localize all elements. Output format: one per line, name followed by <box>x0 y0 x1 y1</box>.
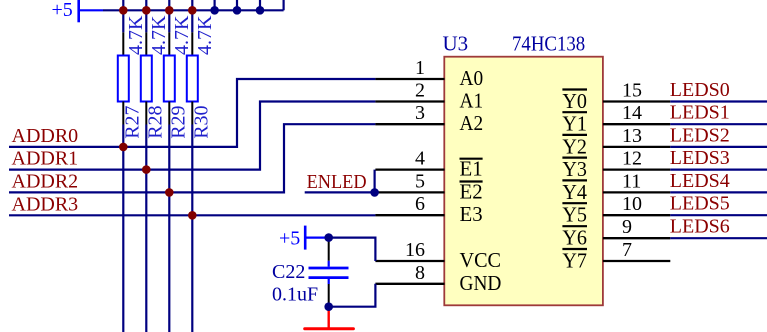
svg-text:LEDS3: LEDS3 <box>670 147 730 169</box>
svg-text:E3: E3 <box>460 202 483 226</box>
wire C22 to GND pin 8 <box>329 284 376 307</box>
net label ADDR1 <box>12 148 79 170</box>
net label LEDS1 <box>670 102 730 124</box>
pin 3 number <box>415 102 425 124</box>
pin 13 (Y2) <box>603 146 670 148</box>
junction dot R29/+5 rail <box>165 6 174 15</box>
svg-text:Y3: Y3 <box>562 157 587 181</box>
svg-text:5: 5 <box>415 170 425 192</box>
wire R27 top <box>122 10 124 32</box>
pin name E3 <box>460 202 483 226</box>
pin name Y5 (active low) <box>562 203 587 227</box>
capacitor C22 <box>309 238 349 307</box>
pin 14 (Y1) <box>603 123 670 125</box>
R30 designator label <box>191 105 213 138</box>
pin 15 (Y0) <box>603 100 670 102</box>
wire ENLED <box>305 191 376 193</box>
resistor R27 <box>118 32 129 124</box>
pin 8 (GND) <box>375 283 444 285</box>
resistor R30 <box>187 32 198 124</box>
wire +5 rail <box>103 9 284 11</box>
wire LEDS3 <box>670 169 767 171</box>
+5 label (C22) <box>279 228 300 250</box>
wire rail end riser <box>283 0 285 10</box>
pin 16 number <box>405 239 425 261</box>
svg-text:VCC: VCC <box>460 248 502 272</box>
pin 9 (Y6) <box>603 237 670 239</box>
C22 value 0.1uF <box>272 284 318 306</box>
IC U3 74HC138 body <box>444 57 603 306</box>
wire R28 stub above rail <box>145 0 147 10</box>
wire LEDS5 <box>670 214 767 216</box>
R27 value label 4.7K <box>125 15 147 55</box>
power +5 symbol (C22) <box>305 226 329 250</box>
net label LEDS2 <box>670 124 730 146</box>
pin name A2 <box>460 111 484 135</box>
pin name Y2 (active low) <box>562 134 587 158</box>
pin 6 (E3) <box>375 214 444 216</box>
junction dot R30/ADDR3 <box>188 211 197 220</box>
U3 designator <box>443 32 469 56</box>
svg-text:C22: C22 <box>272 261 305 283</box>
wire R29 top <box>168 10 170 32</box>
wire R27 column down <box>122 125 124 332</box>
wire ADDR0 <box>9 79 375 147</box>
svg-text:LEDS1: LEDS1 <box>670 102 730 124</box>
net label LEDS6 <box>670 216 730 238</box>
svg-text:+5: +5 <box>279 228 300 250</box>
junction dot rail riser A <box>210 6 219 15</box>
wire R30 top <box>191 10 193 32</box>
net label LEDS5 <box>670 193 730 215</box>
svg-text:4.7K: 4.7K <box>148 15 170 55</box>
pin 10 (Y5) <box>603 214 670 216</box>
svg-text:6: 6 <box>415 193 425 215</box>
wire LEDS1 <box>670 123 767 125</box>
svg-text:4.7K: 4.7K <box>171 15 193 55</box>
svg-text:U3: U3 <box>443 32 469 56</box>
svg-text:ADDR1: ADDR1 <box>12 148 79 170</box>
pin name E1 <box>460 157 483 181</box>
wire R27 stub above rail <box>122 0 124 10</box>
svg-text:LEDS0: LEDS0 <box>670 79 730 101</box>
net label ADDR3 <box>12 193 79 215</box>
svg-text:11: 11 <box>622 170 641 192</box>
svg-text:R28: R28 <box>145 105 167 138</box>
pin 10 number <box>622 193 642 215</box>
svg-text:Y5: Y5 <box>562 203 587 227</box>
svg-text:LEDS6: LEDS6 <box>670 216 730 238</box>
net label LEDS3 <box>670 147 730 169</box>
wire R29 stub above rail <box>168 0 170 10</box>
svg-text:+5: +5 <box>52 0 73 21</box>
svg-text:R30: R30 <box>191 105 213 138</box>
+5 label (top left) <box>52 0 73 21</box>
svg-text:A2: A2 <box>460 111 484 135</box>
power +5 symbol (top left) <box>79 0 103 22</box>
junction dot C22 bottom <box>324 302 333 311</box>
svg-text:ENLED: ENLED <box>307 171 367 193</box>
pin 13 number <box>622 125 642 147</box>
junction dot rail riser B <box>233 6 242 15</box>
net label ADDR0 <box>12 125 79 147</box>
wire LEDS6 <box>670 237 767 239</box>
junction dot R30/+5 rail <box>188 6 197 15</box>
svg-text:GND: GND <box>460 271 502 295</box>
svg-text:13: 13 <box>622 125 642 147</box>
pin 7 number <box>622 239 632 261</box>
pin 14 number <box>622 102 642 124</box>
pin name GND <box>460 271 502 295</box>
svg-text:8: 8 <box>415 262 425 284</box>
pin 4 number <box>415 148 425 170</box>
pin 15 number <box>622 80 642 102</box>
net label ADDR2 <box>12 170 79 192</box>
R30 value label 4.7K <box>194 15 216 55</box>
pin 3 (A2) <box>375 123 444 125</box>
pin name E2 <box>460 179 483 203</box>
svg-text:ADDR3: ADDR3 <box>12 193 79 215</box>
svg-text:LEDS5: LEDS5 <box>670 193 730 215</box>
net label LEDS0 <box>670 79 730 101</box>
svg-text:Y2: Y2 <box>562 134 587 158</box>
svg-text:Y1: Y1 <box>562 112 587 136</box>
svg-text:7: 7 <box>622 239 632 261</box>
pin 4 (E1) <box>375 168 444 170</box>
pin name Y6 (active low) <box>562 226 587 250</box>
pin 5 number <box>415 170 425 192</box>
svg-text:4.7K: 4.7K <box>125 15 147 55</box>
pin 9 number <box>622 216 632 238</box>
pin 11 number <box>622 170 641 192</box>
pin name VCC <box>460 248 502 272</box>
ground <box>305 307 354 329</box>
pin name Y4 (active low) <box>562 180 587 204</box>
svg-text:4: 4 <box>415 148 425 170</box>
R27 designator label <box>122 105 144 138</box>
junction dot C22 top <box>324 233 333 242</box>
svg-text:A1: A1 <box>460 89 484 113</box>
resistor R28 <box>141 32 152 124</box>
svg-text:Y4: Y4 <box>562 180 587 204</box>
svg-text:12: 12 <box>622 148 642 170</box>
pin 8 number <box>415 262 425 284</box>
wire R28 top <box>145 10 147 32</box>
R28 value label 4.7K <box>148 15 170 55</box>
svg-text:E1: E1 <box>460 157 483 181</box>
wire ADDR1 <box>9 102 375 170</box>
svg-text:A0: A0 <box>460 66 484 90</box>
R29 designator label <box>168 105 190 138</box>
pin 7 (Y7) <box>603 260 670 262</box>
pin 5 (E2) <box>375 191 444 193</box>
pin name Y3 (active low) <box>562 157 587 181</box>
junction dot R27/+5 rail <box>119 6 128 15</box>
pin name A0 <box>460 66 484 90</box>
wire LEDS2 <box>670 146 767 148</box>
pin 2 (A1) <box>375 100 444 102</box>
pin 1 number <box>415 57 425 79</box>
pin 11 (Y4) <box>603 191 670 193</box>
pin 6 number <box>415 193 425 215</box>
wire ADDR3 <box>9 214 375 216</box>
net label LEDS4 <box>670 170 730 192</box>
svg-text:Y0: Y0 <box>562 89 587 113</box>
junction dot R29/ADDR2 <box>165 188 174 197</box>
junction dot rail riser C <box>256 6 265 15</box>
wire R30 stub above rail <box>191 0 193 10</box>
svg-text:1: 1 <box>415 57 425 79</box>
wire ENLED to pin 4 <box>374 170 376 193</box>
svg-text:ADDR0: ADDR0 <box>12 125 79 147</box>
wire R29 column down <box>168 125 170 332</box>
wire R28 column down <box>145 125 147 332</box>
R29 value label 4.7K <box>171 15 193 55</box>
pin name Y7 (active low) <box>562 249 587 273</box>
wire rail riser C <box>259 0 261 10</box>
svg-text:14: 14 <box>622 102 642 124</box>
svg-text:15: 15 <box>622 80 642 102</box>
pin 2 number <box>415 80 425 102</box>
svg-text:Y7: Y7 <box>562 249 587 273</box>
pin name A1 <box>460 89 484 113</box>
svg-text:0.1uF: 0.1uF <box>272 284 318 306</box>
pin 12 (Y3) <box>603 168 670 170</box>
svg-text:9: 9 <box>622 216 632 238</box>
pin name Y0 (active low) <box>562 89 587 113</box>
R28 designator label <box>145 105 167 138</box>
resistor R29 <box>164 32 175 124</box>
svg-text:4.7K: 4.7K <box>194 15 216 55</box>
pin name Y1 (active low) <box>562 112 587 136</box>
svg-text:3: 3 <box>415 102 425 124</box>
svg-text:E2: E2 <box>460 179 483 203</box>
svg-text:LEDS4: LEDS4 <box>670 170 730 192</box>
wire rail riser B <box>236 0 238 10</box>
svg-text:R29: R29 <box>168 105 190 138</box>
C22 designator <box>272 261 305 283</box>
junction dot R28/+5 rail <box>142 6 151 15</box>
junction dot R28/ADDR1 <box>142 165 151 174</box>
svg-text:2: 2 <box>415 80 425 102</box>
wire LEDS4 <box>670 191 767 193</box>
pin 16 (VCC) <box>375 260 444 262</box>
svg-text:74HC138: 74HC138 <box>512 32 585 56</box>
svg-text:10: 10 <box>622 193 642 215</box>
wire ADDR2 <box>9 124 375 192</box>
wire rail riser A <box>214 0 216 10</box>
svg-text:R27: R27 <box>122 105 144 138</box>
wire +5 to VCC pin 16 <box>329 238 376 261</box>
pin 1 (A0) <box>375 78 444 80</box>
svg-text:16: 16 <box>405 239 425 261</box>
pin 12 number <box>622 148 642 170</box>
svg-text:ADDR2: ADDR2 <box>12 170 79 192</box>
wire LEDS0 <box>670 100 767 102</box>
svg-text:LEDS2: LEDS2 <box>670 124 730 146</box>
net label ENLED <box>307 171 367 193</box>
junction dot ENLED <box>370 188 379 197</box>
wire R30 column down <box>191 125 193 332</box>
U3 comment 74HC138 <box>512 32 585 56</box>
junction dot R27/ADDR0 <box>119 143 128 152</box>
svg-text:Y6: Y6 <box>562 226 587 250</box>
